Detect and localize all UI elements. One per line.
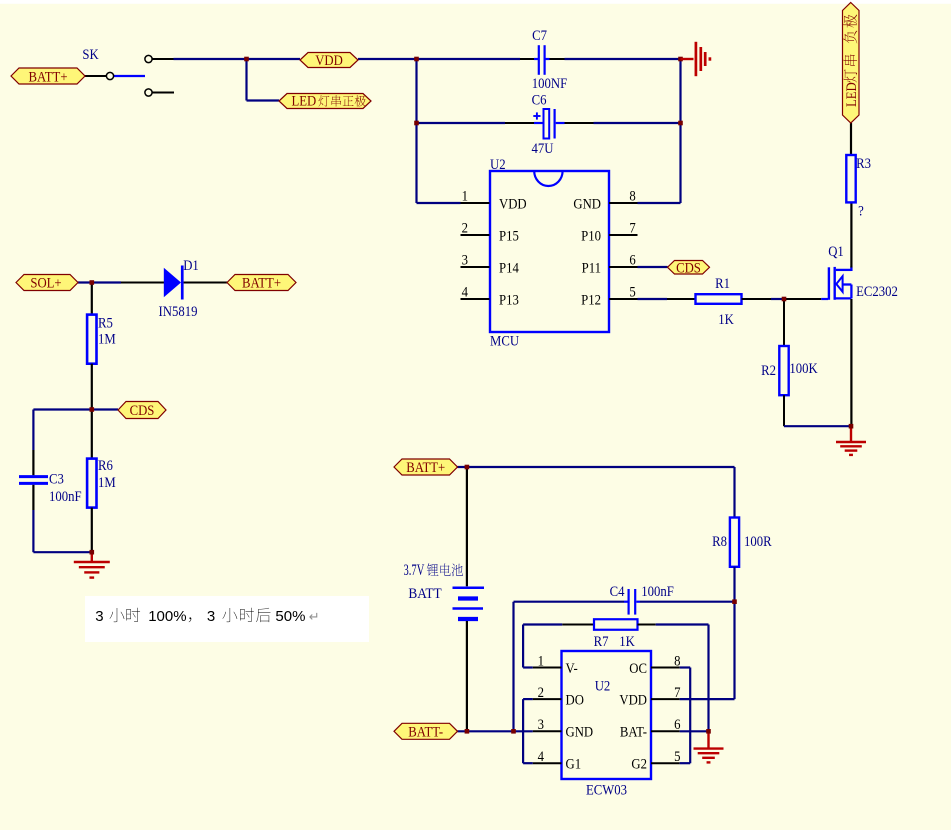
svg-text:P11: P11	[582, 260, 601, 276]
svg-text:BATT+: BATT+	[28, 69, 67, 85]
svg-text:VDD: VDD	[499, 196, 527, 212]
svg-text:47U: 47U	[532, 141, 554, 157]
svg-text:100R: 100R	[744, 534, 772, 550]
svg-text:P12: P12	[581, 292, 601, 308]
svg-text:VDD: VDD	[619, 693, 647, 709]
svg-text:LED: LED	[292, 94, 317, 110]
svg-text:6: 6	[629, 253, 635, 269]
svg-text:MCU: MCU	[490, 334, 519, 350]
svg-text:100%: 100%	[148, 608, 186, 625]
svg-text:R7: R7	[594, 634, 609, 650]
svg-text:50%: 50%	[275, 608, 305, 625]
svg-text:DO: DO	[566, 693, 584, 709]
svg-text:2: 2	[462, 221, 468, 237]
svg-text:1M: 1M	[98, 331, 116, 347]
svg-text:GND: GND	[566, 725, 594, 741]
svg-text:1: 1	[538, 653, 544, 669]
svg-text:3: 3	[95, 608, 103, 625]
svg-text:7: 7	[629, 221, 635, 237]
svg-text:CDS: CDS	[676, 261, 701, 277]
svg-text:R6: R6	[98, 458, 113, 474]
svg-text:?: ?	[858, 204, 864, 220]
svg-text:Q1: Q1	[828, 244, 844, 260]
svg-text:G2: G2	[631, 757, 647, 773]
svg-text:1K: 1K	[619, 634, 635, 650]
svg-text:100NF: 100NF	[532, 76, 568, 92]
svg-text:D1: D1	[183, 258, 199, 274]
svg-text:U2: U2	[490, 157, 506, 173]
svg-text:SK: SK	[82, 47, 98, 63]
svg-text:BATT-: BATT-	[408, 725, 443, 741]
svg-text:3: 3	[538, 717, 544, 733]
svg-text:C3: C3	[49, 472, 64, 488]
svg-text:5: 5	[674, 749, 680, 765]
svg-text:C6: C6	[532, 93, 547, 109]
svg-text:BATT: BATT	[408, 587, 442, 603]
svg-text:R3: R3	[856, 156, 871, 172]
svg-text:1M: 1M	[98, 475, 116, 491]
svg-text:R5: R5	[98, 315, 113, 331]
svg-text:C7: C7	[532, 28, 547, 44]
svg-text:5: 5	[629, 285, 635, 301]
svg-text:1K: 1K	[718, 312, 734, 328]
svg-text:7: 7	[674, 685, 680, 701]
svg-text:↵: ↵	[309, 609, 320, 624]
svg-text:4: 4	[538, 749, 544, 765]
svg-text:BAT-: BAT-	[620, 725, 647, 741]
svg-text:P15: P15	[499, 228, 519, 244]
svg-text:C4: C4	[610, 584, 625, 600]
svg-text:BATT+: BATT+	[406, 460, 445, 476]
svg-text:GND: GND	[573, 196, 601, 212]
svg-text:3: 3	[207, 608, 215, 625]
svg-text:R1: R1	[715, 276, 730, 292]
svg-text:V-: V-	[566, 661, 579, 677]
svg-text:4: 4	[462, 285, 468, 301]
svg-text:6: 6	[674, 717, 680, 733]
svg-text:1: 1	[462, 189, 468, 205]
svg-text:100nF: 100nF	[49, 489, 82, 505]
svg-text:SOL+: SOL+	[30, 276, 61, 292]
svg-text:U2: U2	[595, 678, 611, 694]
svg-text:ECW03: ECW03	[586, 782, 627, 798]
svg-text:3: 3	[462, 253, 468, 269]
svg-text:IN5819: IN5819	[159, 304, 198, 320]
svg-text:OC: OC	[629, 661, 647, 677]
svg-text:P13: P13	[499, 292, 519, 308]
svg-text:100nF: 100nF	[641, 584, 674, 600]
svg-text:R8: R8	[712, 534, 727, 550]
svg-text:2: 2	[538, 685, 544, 701]
svg-text:P14: P14	[499, 260, 519, 276]
svg-text:EC2302: EC2302	[856, 284, 898, 300]
svg-text:P10: P10	[581, 228, 601, 244]
svg-text:BATT+: BATT+	[242, 276, 281, 292]
svg-text:8: 8	[674, 653, 680, 669]
svg-text:3.7V: 3.7V	[404, 561, 425, 579]
svg-text:100K: 100K	[789, 361, 817, 377]
svg-text:8: 8	[629, 189, 635, 205]
svg-text:LED: LED	[844, 82, 860, 107]
svg-text:G1: G1	[566, 757, 582, 773]
svg-text:CDS: CDS	[130, 403, 155, 419]
svg-text:R2: R2	[761, 363, 776, 379]
svg-text:VDD: VDD	[315, 53, 343, 69]
